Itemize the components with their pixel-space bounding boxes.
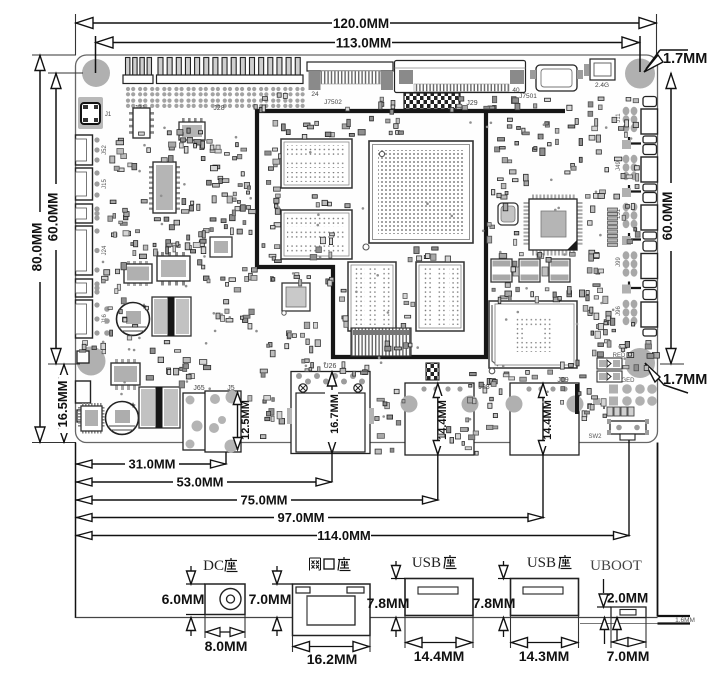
dimension 114.0MM (76, 535, 630, 537)
passive cluster D2 (575, 119, 578, 125)
passive cluster N8 (133, 325, 138, 328)
resistor ladder right (608, 208, 618, 211)
left edge connector J15 (76, 168, 93, 200)
twin tantalum capacitor block C21/C22 (152, 297, 191, 336)
svg-text:60.0MM: 60.0MM (46, 193, 61, 242)
svg-text:+: + (130, 400, 135, 410)
extension line left for 120MM (75, 14, 77, 55)
tick J5 center (225, 452, 227, 464)
SOIC U13 (182, 118, 185, 122)
svg-text:14.4MM: 14.4MM (542, 400, 554, 440)
svg-text:114.0MM: 114.0MM (317, 528, 370, 543)
passive cluster B4 (417, 256, 422, 261)
passive cluster B2 (394, 124, 398, 129)
passive cluster E2 (627, 240, 632, 244)
thick trace L (575, 384, 579, 414)
svg-text:GED: GED (621, 378, 635, 384)
svg-text:60.0MM: 60.0MM (660, 192, 675, 241)
svg-text:J7502: J7502 (324, 99, 342, 106)
svg-text:31.0MM: 31.0MM (129, 457, 176, 472)
svg-text:UBOOT: UBOOT (590, 558, 642, 574)
regulator QFN U11 (115, 359, 118, 364)
passive cluster X5 (390, 110, 394, 115)
svg-text:J28: J28 (213, 105, 224, 112)
header pad rows (126, 87, 130, 91)
passive cluster A6 (226, 282, 229, 286)
passive cluster N4 (560, 362, 564, 369)
SOM module frame thick outline (257, 111, 565, 267)
passive cluster M1 (511, 97, 516, 104)
passive cluster N2 (546, 257, 551, 262)
svg-text:DC: DC (203, 558, 224, 574)
passive cluster B3 (316, 247, 322, 253)
left edge small square (77, 351, 89, 363)
baseline board side view (76, 617, 293, 619)
via dots (324, 362, 327, 365)
left edge connector aux (76, 204, 93, 223)
module connector footprint (351, 328, 411, 356)
passive cluster X7 (513, 261, 517, 266)
svg-text:2.0MM: 2.0MM (607, 591, 648, 606)
dimension 97.0MM (76, 517, 544, 519)
passive cluster A5 (199, 241, 204, 247)
svg-text:16.5MM: 16.5MM (55, 381, 70, 428)
passive cluster C4 (411, 302, 415, 306)
passive cluster N5 (473, 398, 477, 404)
dimension 12.5MM (237, 392, 239, 450)
RAM chip bottom-B (416, 262, 464, 331)
passive cluster B1 (315, 121, 319, 125)
left reference line bottom (75, 443, 77, 619)
dimension 60.0MM left vertical (55, 73, 57, 364)
passive cluster N10 (254, 105, 257, 109)
passive cluster M2 (605, 340, 610, 343)
passive cluster X2 (131, 243, 135, 246)
svg-text:14.4MM: 14.4MM (414, 648, 465, 664)
right edge connector group 4 (643, 241, 657, 251)
left small pads (104, 306, 110, 312)
passive cluster I1 (260, 369, 267, 373)
extension lines for 80.0MM (32, 54, 76, 56)
extension line left for 113MM (95, 36, 97, 73)
14.4MM dimension (404, 616, 406, 649)
LED D2 GED (597, 371, 622, 382)
dimension 14.4MM (J98) (437, 383, 439, 500)
dimension 31.0MM (76, 463, 227, 465)
checkered component near J98 (426, 363, 439, 380)
leader 1.7MM top-right (660, 49, 688, 51)
RAM chip bottom-A (348, 262, 396, 331)
RAM chip mid-left (281, 210, 352, 259)
passive cluster N7 (305, 359, 310, 363)
power caps row (491, 259, 512, 282)
svg-text:97.0MM: 97.0MM (278, 510, 325, 525)
right reference line bottom (657, 443, 659, 617)
CPU BGA U1 (369, 141, 473, 243)
passive cluster J1c (387, 415, 393, 419)
passive cluster H2 (146, 376, 153, 381)
passive cluster N9 (164, 217, 169, 221)
passive cluster D4 (565, 171, 570, 174)
IC J21 DIP (129, 112, 133, 115)
2.4G antenna connector (590, 59, 615, 80)
passive cluster D3 (502, 158, 507, 163)
8.0MM dimension (204, 615, 206, 639)
svg-text:J49: J49 (616, 161, 622, 171)
svg-text:SW2: SW2 (588, 434, 602, 440)
dimension 75.0MM (76, 499, 439, 501)
leader 1.7MM bottom-right (647, 366, 688, 393)
dimension 53.0MM (76, 481, 332, 483)
dimension 113.0MM (96, 42, 641, 44)
extension line right for 113MM (639, 36, 641, 72)
passive cluster M3 (473, 431, 478, 435)
passive cluster X10 (644, 366, 648, 371)
svg-text:2.4G: 2.4G (595, 82, 609, 89)
pad grid rows (609, 385, 618, 394)
passive cluster C2 (269, 343, 273, 347)
QFN U12 fine pitch (82, 403, 84, 407)
svg-text:16.2MM: 16.2MM (307, 651, 358, 667)
left edge connector J24 (76, 226, 93, 275)
passive cluster L1 (646, 341, 651, 345)
dimension 16.5MM left vertical (63, 364, 65, 443)
passive cluster L2 (582, 411, 587, 417)
svg-text:7.0MM: 7.0MM (249, 591, 292, 607)
svg-text:USB: USB (412, 555, 441, 571)
QFP chip U3 (532, 195, 534, 200)
extension lines for 60.0MM left (48, 72, 83, 74)
svg-text:1.6MM: 1.6MM (675, 617, 695, 624)
svg-text:53.0MM: 53.0MM (177, 475, 224, 490)
svg-text:7.8MM: 7.8MM (367, 595, 410, 611)
extension line right for 120MM (656, 14, 658, 55)
svg-text:120.0MM: 120.0MM (333, 16, 389, 31)
passive cluster F2 (604, 320, 609, 325)
left edge connector J16 (76, 300, 93, 338)
PCB board outline (76, 55, 658, 443)
svg-text:1.7MM: 1.7MM (663, 51, 707, 67)
svg-text:7.8MM: 7.8MM (473, 595, 516, 611)
svg-text:J15: J15 (102, 179, 108, 189)
16.2MM dimension (292, 636, 294, 653)
svg-text:J1: J1 (105, 112, 112, 118)
FPC connector J7502 (307, 62, 393, 71)
svg-text:USB: USB (527, 555, 556, 571)
board edge side view thick with 1.6MM (658, 615, 691, 617)
svg-text:14.3MM: 14.3MM (519, 648, 570, 664)
right edge connector group 1 (643, 97, 657, 107)
cap row near SW2 (607, 407, 613, 416)
passive cluster H3 (183, 358, 190, 363)
svg-text:24: 24 (311, 91, 319, 98)
crystal Y1 (498, 203, 518, 225)
dimension 120.0MM (76, 22, 657, 24)
pin header J21 (126, 58, 130, 76)
svg-text:8.0MM: 8.0MM (205, 638, 248, 654)
dimension 60.0MM right vertical (670, 73, 672, 364)
passive cluster G1 (121, 298, 126, 304)
cap block small (513, 267, 519, 276)
passive cluster A4 (189, 206, 193, 211)
svg-text:75.0MM: 75.0MM (241, 493, 288, 508)
svg-text:J65: J65 (193, 385, 204, 392)
eMMC BGA U2 (489, 301, 577, 368)
passive cluster X4 (450, 107, 454, 112)
electrolytic capacitor C20 (117, 303, 150, 336)
passive cluster H1 (92, 346, 96, 350)
dimension 14.4MM (J59) (542, 383, 544, 519)
dimension 16.7MM (331, 372, 333, 483)
micro-USB OTG connector (536, 65, 577, 91)
passive cluster X8 (325, 202, 328, 205)
svg-text:12.5MM: 12.5MM (240, 400, 252, 440)
passive cluster A3 (136, 230, 140, 233)
passive cluster X9 (404, 343, 409, 349)
svg-text:6.0MM: 6.0MM (162, 591, 205, 607)
FPC connector J7501 (395, 61, 526, 93)
left edge connector J31 (76, 381, 91, 403)
7.0MM dimension (UBOOT) (610, 618, 612, 649)
passive cluster C1 (295, 273, 299, 277)
tick SW2 center (628, 440, 630, 537)
passive cluster A2 (243, 221, 246, 225)
right edge connector group 2 (643, 145, 657, 155)
14.3MM dimension (510, 616, 512, 649)
passive cluster K1 (486, 425, 493, 429)
QFN U15 (210, 237, 232, 257)
ethernet jack side view (310, 557, 321, 559)
right edge connector group 3 (643, 193, 657, 203)
connector J29 (404, 93, 460, 109)
passive cluster D1 (498, 138, 505, 141)
dimension 80.0MM vertical (39, 55, 41, 443)
svg-text:113.0MM: 113.0MM (336, 36, 392, 51)
passive cluster B5 (269, 254, 276, 257)
svg-text:J24: J24 (102, 245, 108, 255)
mount hole top-right (625, 59, 655, 89)
right edge connector group 5 (643, 290, 657, 300)
RAM chip top-left (281, 139, 352, 188)
pin header J28 (158, 58, 163, 76)
svg-text:1.7MM: 1.7MM (663, 372, 707, 388)
svg-text:J96: J96 (616, 306, 622, 316)
passive cluster X6 (274, 198, 279, 203)
electrolytic capacitor C23 (106, 402, 139, 435)
bracket marks (588, 404, 592, 409)
passive cluster X3 (504, 372, 509, 376)
left edge connector aux (76, 279, 93, 297)
svg-text:J29: J29 (466, 100, 477, 107)
svg-text:16.7MM: 16.7MM (329, 394, 341, 434)
passive cluster N1 (514, 239, 517, 245)
svg-text:J52: J52 (102, 145, 108, 155)
passive cluster X1 (179, 143, 183, 148)
mount hole top-left (82, 59, 110, 87)
passive cluster F1 (535, 297, 538, 303)
svg-text:7.0MM: 7.0MM (607, 648, 650, 664)
SOIC8 U10 (127, 261, 130, 266)
passive cluster C3 (342, 316, 348, 319)
QFN U16 with X (282, 283, 310, 311)
SSOP U14 (149, 166, 153, 168)
passive cluster E1 (594, 252, 599, 258)
passive cluster A7 (243, 316, 248, 323)
left edge small square2 (77, 410, 89, 422)
twin tantalum capacitor block C24/C25 (139, 387, 180, 428)
passive cluster N3 (597, 325, 602, 329)
mount hole bottom-right (625, 348, 655, 378)
svg-text:J7501: J7501 (519, 93, 537, 100)
passive cluster A1 (198, 131, 202, 134)
LED D1 RED (597, 358, 622, 369)
SOIC8 U17 (161, 252, 164, 257)
passive cluster N6 (342, 362, 345, 368)
mount hole bottom-left (77, 347, 106, 376)
connector J1 (78, 97, 103, 129)
svg-text:J99: J99 (616, 257, 622, 267)
left edge connector J52 (76, 135, 93, 165)
svg-text:80.0MM: 80.0MM (30, 223, 45, 272)
